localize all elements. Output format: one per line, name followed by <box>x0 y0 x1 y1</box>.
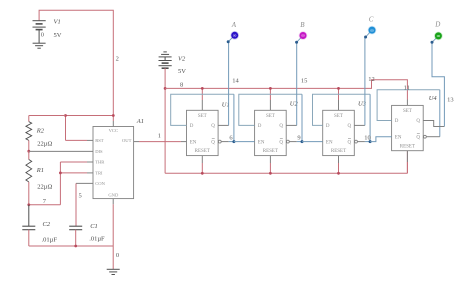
svg-text:EN: EN <box>190 140 197 145</box>
svg-text:22µΩ: 22µΩ <box>37 140 52 147</box>
svg-text:D: D <box>434 21 440 29</box>
svg-text:TRI: TRI <box>95 170 103 175</box>
svg-text:V1: V1 <box>54 19 61 26</box>
svg-text:9: 9 <box>297 135 300 142</box>
svg-text:1: 1 <box>158 132 161 139</box>
svg-text:C2: C2 <box>43 221 51 228</box>
svg-text:2: 2 <box>116 55 119 62</box>
svg-text:.01µF: .01µF <box>89 235 105 242</box>
svg-text:00: 00 <box>370 28 374 32</box>
svg-text:15: 15 <box>301 77 308 84</box>
svg-text:Q: Q <box>279 140 283 145</box>
svg-text:D: D <box>395 119 399 124</box>
svg-text:Q: Q <box>347 124 351 129</box>
svg-text:Q: Q <box>211 140 215 145</box>
svg-text:A: A <box>231 21 237 29</box>
svg-text:D: D <box>258 124 262 129</box>
svg-text:V2: V2 <box>178 56 186 63</box>
svg-text:00: 00 <box>301 34 305 38</box>
svg-text:0: 0 <box>41 31 44 38</box>
svg-text:5V: 5V <box>54 32 62 39</box>
svg-text:C1: C1 <box>90 223 98 230</box>
svg-text:00: 00 <box>437 34 441 38</box>
svg-text:DIS: DIS <box>95 149 103 154</box>
svg-text:10: 10 <box>364 135 371 142</box>
svg-text:OUT: OUT <box>122 138 132 143</box>
svg-text:Q: Q <box>279 124 283 129</box>
svg-text:00: 00 <box>233 34 237 38</box>
svg-text:Q: Q <box>211 124 215 129</box>
svg-text:RESET: RESET <box>331 149 346 154</box>
svg-text:Q: Q <box>416 119 420 124</box>
svg-text:SET: SET <box>266 114 275 119</box>
svg-text:VCC: VCC <box>109 128 118 133</box>
svg-text:12: 12 <box>368 76 375 83</box>
svg-text:EN: EN <box>258 140 265 145</box>
svg-text:CON: CON <box>95 181 105 186</box>
svg-text:A1: A1 <box>136 118 144 125</box>
svg-text:R1: R1 <box>36 167 44 174</box>
svg-text:Q: Q <box>347 140 351 145</box>
svg-text:EN: EN <box>326 140 333 145</box>
svg-text:5: 5 <box>79 192 82 199</box>
svg-text:13: 13 <box>447 97 454 104</box>
svg-text:THR: THR <box>95 160 105 165</box>
svg-text:D: D <box>190 124 194 129</box>
svg-text:11: 11 <box>404 84 410 91</box>
svg-text:RESET: RESET <box>400 144 415 149</box>
svg-text:8: 8 <box>180 82 183 89</box>
svg-text:GND: GND <box>108 193 119 198</box>
svg-text:D: D <box>326 124 330 129</box>
svg-text:SET: SET <box>198 114 207 119</box>
svg-text:RESET: RESET <box>195 149 210 154</box>
svg-text:.01µF: .01µF <box>42 236 58 243</box>
svg-text:RST: RST <box>95 138 104 143</box>
svg-text:B: B <box>300 21 305 29</box>
svg-text:C: C <box>369 16 374 24</box>
svg-text:SET: SET <box>403 109 412 114</box>
svg-text:0: 0 <box>116 252 119 259</box>
svg-text:EN: EN <box>395 135 402 140</box>
svg-text:RESET: RESET <box>263 149 278 154</box>
svg-text:5V: 5V <box>178 68 186 75</box>
svg-text:R2: R2 <box>36 128 45 135</box>
svg-text:Q: Q <box>416 135 420 140</box>
svg-text:14: 14 <box>232 77 239 84</box>
svg-text:22µΩ: 22µΩ <box>37 184 52 191</box>
svg-text:U4: U4 <box>429 95 438 102</box>
svg-text:SET: SET <box>334 114 343 119</box>
